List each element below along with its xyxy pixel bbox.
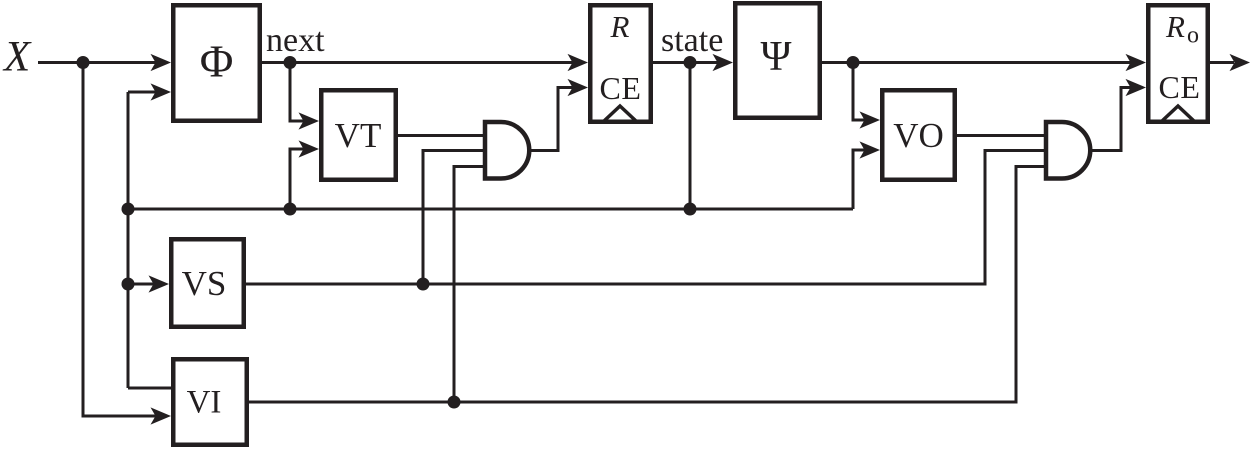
arrowhead into Ro CE [1126, 79, 1147, 96]
wire VS output to AND1 and AND2 [246, 151, 1047, 285]
wire VT output to AND1 [398, 134, 486, 137]
block Psi [735, 3, 820, 118]
arrowhead into VI in2 [151, 407, 172, 424]
arrowhead into VO in1 [860, 111, 881, 128]
wire state feedback vertical left x=128 [127, 92, 130, 388]
arrowhead into Psi [713, 54, 734, 71]
block VS [171, 239, 244, 327]
arrowhead into VO in2 [860, 141, 881, 158]
wire next: Phi output to R input [262, 61, 573, 64]
svg-text:CE: CE [600, 70, 642, 106]
wire AND1 middle input from VS [423, 151, 486, 285]
wire X vertical branch to VI [83, 63, 156, 417]
svg-text:CE: CE [1159, 69, 1201, 105]
wire state feedback horizontal y=209 [128, 208, 853, 211]
wire VT input2 from feedback [290, 149, 304, 209]
wire state: R output to Psi input [653, 61, 718, 64]
clock caret Ro [1162, 106, 1194, 121]
arrowhead into Phi in2 [151, 83, 172, 100]
block VT [321, 90, 396, 180]
wire Psi output branch to VO input1 [853, 63, 865, 121]
arrowhead into Ro data [1126, 54, 1147, 71]
junction dot X branch [77, 56, 90, 69]
svg-text:state: state [661, 22, 723, 59]
arrowhead into Phi in1 [151, 54, 172, 71]
wire Psi output to Ro input [822, 61, 1131, 64]
block Phi [173, 5, 260, 121]
wire into VI upper input [128, 387, 171, 390]
junction dot feedback left [122, 203, 135, 216]
register Ro [1148, 5, 1208, 122]
wire AND1 output to R CE [527, 88, 573, 151]
junction dot feedback state [684, 203, 697, 216]
arrowhead output Y [1230, 54, 1251, 71]
svg-text:R: R [610, 9, 630, 44]
arrowhead into R data [568, 54, 589, 71]
junction dot state [684, 56, 697, 69]
block VO [882, 90, 955, 180]
junction dot Psi out [847, 56, 860, 69]
wire VO input2 from feedback [853, 150, 865, 209]
junction dot feedback VT [284, 203, 297, 216]
svg-text:VO: VO [893, 116, 944, 155]
svg-text:VI: VI [187, 385, 222, 421]
register R [590, 5, 651, 122]
arrowhead into VT in2 [299, 140, 320, 157]
svg-text:VS: VS [182, 264, 227, 303]
junction dot VI out branch [448, 396, 461, 409]
svg-text:X: X [2, 34, 32, 81]
wire Phi second input [128, 91, 156, 94]
AND gate U2 [1046, 122, 1090, 179]
wire VI output to AND2 [249, 167, 1047, 403]
clock caret R [604, 106, 636, 121]
junction dot VS out branch [417, 278, 430, 291]
wire Ro output [1210, 61, 1234, 64]
arrowhead into VT in1 [299, 112, 320, 129]
AND gate U1 [485, 122, 529, 179]
wire AND2 output to Ro CE [1089, 88, 1131, 151]
wire VS input [128, 283, 154, 286]
svg-text:Ψ: Ψ [761, 34, 792, 80]
wire X input horizontal [38, 61, 156, 64]
wire next branch to VT input1 [290, 63, 304, 122]
svg-text:VT: VT [335, 116, 382, 155]
junction dot next [284, 56, 297, 69]
junction dot VS input [122, 278, 135, 291]
svg-text:Φ: Φ [200, 36, 234, 87]
wire AND1 lower input from VI [454, 167, 486, 403]
wire VO output to AND2 [957, 134, 1047, 137]
wire state vertical x=690 [689, 63, 692, 210]
arrowhead into R CE [568, 79, 589, 96]
block VI [173, 359, 247, 445]
svg-text:next: next [266, 22, 325, 59]
arrowhead into VS [149, 275, 170, 292]
